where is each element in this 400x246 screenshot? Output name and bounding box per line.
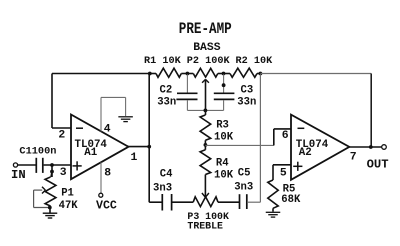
svg-text:68K: 68K — [281, 194, 301, 206]
svg-text:7: 7 — [350, 152, 357, 164]
svg-text:R3: R3 — [216, 120, 229, 132]
svg-text:33n: 33n — [237, 97, 256, 109]
svg-text:R2 10K: R2 10K — [236, 56, 274, 67]
svg-text:8: 8 — [104, 167, 111, 179]
svg-text:C2: C2 — [160, 85, 173, 97]
svg-text:BASS: BASS — [193, 42, 221, 54]
svg-text:TREBLE: TREBLE — [187, 221, 223, 232]
svg-text:6: 6 — [282, 130, 289, 142]
svg-text:C1100n: C1100n — [19, 146, 56, 158]
svg-text:33n: 33n — [157, 97, 176, 109]
svg-text:OUT: OUT — [367, 158, 389, 172]
svg-text:47K: 47K — [59, 200, 79, 212]
svg-text:C3: C3 — [241, 85, 254, 97]
svg-text:10K: 10K — [214, 132, 234, 144]
svg-text:P1: P1 — [61, 188, 74, 200]
svg-text:10K: 10K — [214, 169, 234, 181]
svg-text:C4: C4 — [160, 168, 173, 180]
svg-text:PRE-AMP: PRE-AMP — [179, 21, 232, 39]
svg-text:4: 4 — [104, 123, 111, 135]
svg-text:3n3: 3n3 — [153, 182, 172, 194]
svg-text:2: 2 — [58, 129, 65, 141]
svg-text:IN: IN — [11, 168, 26, 182]
svg-text:3n3: 3n3 — [234, 182, 253, 194]
svg-text:1: 1 — [131, 152, 138, 164]
svg-text:R4: R4 — [216, 157, 229, 169]
svg-text:5: 5 — [280, 167, 287, 179]
svg-text:A1: A1 — [84, 147, 97, 159]
svg-text:3: 3 — [60, 167, 67, 179]
svg-text:C5: C5 — [238, 168, 251, 180]
svg-text:R1 10K P2 100K: R1 10K P2 100K — [144, 56, 230, 67]
svg-text:A2: A2 — [299, 147, 312, 159]
svg-text:VCC: VCC — [96, 199, 117, 212]
